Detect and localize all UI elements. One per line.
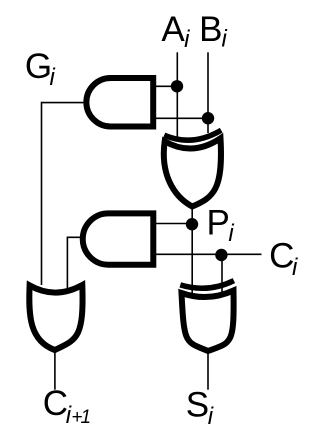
- svg-text:i: i: [228, 220, 234, 247]
- svg-text:P: P: [207, 203, 230, 242]
- svg-text:A: A: [161, 10, 185, 49]
- svg-text:i: i: [292, 254, 298, 281]
- svg-text:i: i: [50, 64, 56, 91]
- svg-text:i: i: [222, 26, 228, 53]
- svg-text:C: C: [269, 237, 294, 276]
- svg-text:i: i: [184, 26, 190, 53]
- svg-text:i: i: [208, 403, 214, 430]
- svg-text:G: G: [25, 47, 52, 86]
- svg-text:S: S: [186, 385, 209, 424]
- svg-text:+1: +1: [71, 407, 89, 428]
- svg-text:B: B: [199, 10, 222, 49]
- svg-text:C: C: [43, 384, 68, 423]
